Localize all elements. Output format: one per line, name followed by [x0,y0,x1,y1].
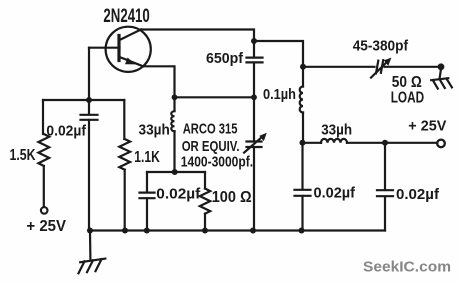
svg-text:0.02µf: 0.02µf [46,123,87,140]
svg-text:0.02µf: 0.02µf [396,186,440,203]
svg-text:ARCO 315: ARCO 315 [183,120,238,137]
svg-text:650pf: 650pf [206,51,243,67]
svg-text:+ 25V: + 25V [26,218,66,235]
svg-text:33µh: 33µh [139,122,170,139]
svg-text:0.02µf: 0.02µf [314,185,356,202]
svg-text:45-380pf: 45-380pf [353,39,408,55]
svg-text:33µh: 33µh [321,121,352,138]
svg-text:OR EQUIV.: OR EQUIV. [182,138,240,155]
svg-text:+ 25V: + 25V [408,117,446,134]
svg-text:100 Ω: 100 Ω [212,189,252,206]
svg-text:1400-3000pf.: 1400-3000pf. [181,154,253,171]
svg-text:2N2410: 2N2410 [103,6,149,27]
svg-text:0.02µf: 0.02µf [156,185,201,202]
svg-text:0.1µh: 0.1µh [263,86,296,103]
svg-text:SeekIC.com: SeekIC.com [363,260,451,276]
svg-text:1.5K: 1.5K [10,147,37,164]
svg-text:LOAD: LOAD [391,89,424,106]
svg-text:1.1K: 1.1K [134,149,160,166]
